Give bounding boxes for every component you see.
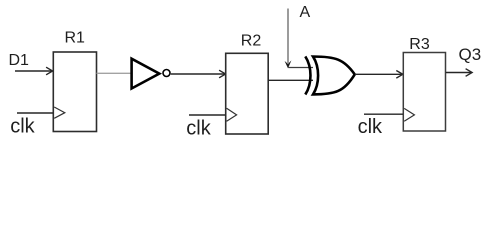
wire R1 Q to inverter (gray): [97, 72, 132, 74]
flip-flop R1: [53, 52, 96, 132]
clk edge marker R1: [54, 107, 65, 118]
XOR gate U2: [305, 56, 354, 94]
wire clk to R1: [17, 112, 53, 114]
wire clk to R2: [189, 114, 226, 116]
wire inverter to R2 D input: [171, 70, 226, 78]
wire D1 to R1 D input: [15, 67, 53, 75]
clk edge marker R2: [227, 108, 237, 121]
wire R3 Q to Q3 output: [446, 69, 472, 77]
clk edge marker R3: [404, 108, 414, 121]
svg-text:clk: clk: [186, 117, 211, 139]
flip-flop R2: [226, 53, 269, 134]
wire XOR to R3 D input: [355, 71, 403, 79]
wire R2 Q to XOR lower input: [268, 79, 313, 81]
inverter U1: [132, 59, 170, 89]
svg-text:A: A: [300, 4, 311, 21]
wire clk to R3: [364, 113, 403, 115]
svg-text:clk: clk: [10, 115, 35, 137]
svg-text:clk: clk: [358, 116, 383, 138]
wire A down to XOR upper input: [285, 9, 313, 69]
svg-text:Q3: Q3: [459, 45, 482, 64]
svg-text:R3: R3: [409, 36, 430, 53]
svg-text:R2: R2: [241, 33, 262, 50]
svg-text:R1: R1: [64, 30, 85, 47]
svg-text:D1: D1: [9, 52, 30, 69]
flip-flop R3: [403, 53, 445, 132]
